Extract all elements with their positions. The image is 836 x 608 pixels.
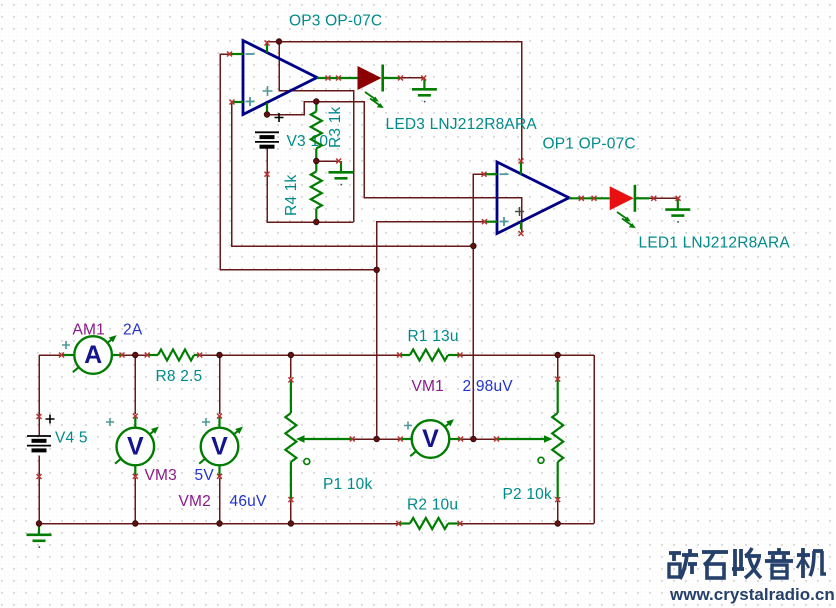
resistor R8 (158, 350, 194, 361)
ground bottom left (38, 524, 40, 535)
node VM2 bottom (217, 521, 223, 527)
x R8 right (197, 353, 202, 358)
OP1 output pin wire to LED1 (569, 197, 610, 199)
x battery V3 minus (265, 172, 270, 177)
voltmeter VM1 (400, 438, 412, 440)
OP3 minus glyph (246, 53, 255, 55)
wire feedback loop from node A down and right to R network right rail (279, 42, 354, 223)
voltmeter VM2 (218, 416, 220, 428)
x VM2 bottom (217, 474, 222, 479)
node VM2 top (217, 352, 223, 358)
x P2 bottom (555, 497, 560, 502)
ammeter AM1 (62, 354, 75, 356)
op-amp U OP3 (243, 41, 317, 115)
wire R3 top node right then down to OP1 V- supply pin (316, 102, 521, 233)
wire battery V3 minus to R network bottom (267, 147, 354, 222)
P1 terminal circle (304, 459, 310, 465)
svg-text:R4 1k: R4 1k (283, 174, 300, 216)
wire battery V4 branch (38, 355, 40, 524)
OP3 inverting input pin (230, 53, 244, 55)
x AM1 right (120, 353, 125, 358)
wire R3 bottom to ground (316, 160, 338, 162)
x OP1 V+ pin (519, 159, 524, 164)
x VM1 minus (458, 437, 463, 442)
OP1 minus glyph (500, 173, 509, 175)
node VM3 bottom (133, 521, 139, 527)
OP1 V- supply pin (520, 222, 522, 230)
svg-text:P2 10k: P2 10k (503, 486, 553, 503)
LED LED1 (610, 186, 634, 210)
svg-text:R8 2.5: R8 2.5 (156, 368, 203, 385)
node R3-R4 (314, 158, 320, 164)
x AM1 left (59, 353, 64, 358)
battery V3 plus marker (275, 113, 284, 122)
voltmeter VM3 (134, 416, 136, 428)
x R2 left (396, 521, 401, 526)
svg-text:P1 10k: P1 10k (323, 476, 373, 493)
LED1 emission arrows (617, 212, 629, 220)
ground near R3 (340, 161, 342, 172)
wire OP3 V- pin to R3 top node (267, 102, 316, 115)
P2 wiper arrow (497, 438, 548, 440)
node A top rail (276, 39, 282, 45)
node OP3 V- / V3 plus (264, 112, 270, 118)
x VM3 top (133, 414, 138, 419)
OP1 inverting input pin (484, 173, 497, 175)
node P2 bottom (555, 521, 561, 527)
svg-text:R3 1k: R3 1k (327, 106, 344, 148)
LED LED3 (358, 66, 382, 90)
OP3 output pin wire to LED3 (317, 77, 358, 79)
svg-text:V: V (211, 433, 228, 461)
wire OP3 inverting input left and down to node B (220, 54, 377, 270)
OP1 non-inverting input pin (485, 221, 498, 223)
node P2 top (555, 352, 561, 358)
P2 terminal circle (538, 457, 544, 463)
x R3 ground (336, 159, 341, 164)
x R1 right (458, 353, 463, 358)
svg-text:A: A (84, 341, 102, 369)
svg-text:OP1 OP-07C: OP1 OP-07C (543, 136, 636, 153)
VM3 plus marker (106, 418, 114, 426)
wire OP1 inverting input left and down to VM1 right node (473, 174, 484, 439)
x LED1 cathode (651, 196, 656, 201)
LED1 cathode wire (635, 197, 649, 199)
x OP1 V- pin (519, 231, 524, 236)
svg-text:www.crystalradio.cn: www.crystalradio.cn (669, 585, 835, 604)
LED3 cathode wire (383, 77, 399, 79)
x LED1 anode (592, 196, 597, 201)
x OP1 inverting pin (482, 172, 487, 177)
x P1 bottom (288, 497, 293, 502)
node C to OP1- (471, 243, 477, 249)
node VM1 minus (471, 436, 477, 442)
wire OP1 non-inverting input left and down to VM1 left node (377, 222, 485, 439)
wire top supply rail from OP3 V+ pin to OP1 V+ pin (267, 42, 522, 161)
x R8 left (145, 353, 150, 358)
OP1 supply plus glyph (515, 207, 524, 216)
node P1 bottom (288, 521, 294, 527)
resistor R1 (410, 350, 448, 361)
wire VM1 minus to P2 wiper (461, 438, 497, 440)
node R3 top (314, 99, 320, 105)
x ground LED1 (676, 196, 681, 201)
x VM2 top (217, 414, 222, 419)
VM1 plus marker (404, 422, 412, 430)
battery V3 (255, 131, 279, 133)
x OP3 non-inverting pin (230, 100, 235, 105)
ground after LED3 (423, 78, 425, 89)
x P2 top (555, 377, 560, 382)
x ground LED3 (421, 76, 426, 81)
x P1 top (288, 377, 293, 382)
potentiometer P1 (290, 380, 292, 414)
svg-text:LED1 LNJ212R8ARA: LED1 LNJ212R8ARA (639, 235, 791, 252)
battery V4 (27, 435, 51, 437)
svg-text:V: V (127, 433, 144, 461)
x OP1 non-inverting pin (482, 219, 487, 224)
ground after LED1 (677, 198, 679, 209)
AM1 plus marker (62, 341, 70, 349)
LED3 emission arrows (365, 92, 377, 100)
svg-text:V4 5: V4 5 (55, 430, 88, 447)
wire LED3 cathode to ground (399, 77, 424, 79)
battery V4 plus marker (46, 415, 55, 424)
wire LED1 cathode to ground (649, 197, 678, 199)
svg-text:VM1: VM1 (412, 378, 444, 395)
svg-text:5V: 5V (195, 467, 215, 484)
x P2 wiper (494, 437, 499, 442)
OP3 non-inverting input pin (232, 101, 243, 103)
wire VM2 branch (219, 355, 221, 524)
OP1 plus glyph (500, 217, 509, 226)
OP3 supply plus glyph (263, 86, 273, 96)
x P1 wiper (350, 437, 355, 442)
svg-text:V: V (422, 425, 439, 453)
node VM1 plus (374, 436, 380, 442)
x VM1 plus (398, 437, 403, 442)
node P1 top (288, 352, 294, 358)
wire VM3 branch (134, 355, 136, 524)
x V4 plus (37, 414, 42, 419)
x R1 left (397, 353, 402, 358)
x LED3 anode (336, 76, 341, 81)
op-amp U OP1 (497, 162, 569, 234)
x VM3 bottom (133, 474, 138, 479)
svg-text:OP3 OP-07C: OP3 OP-07C (289, 13, 382, 30)
x V4 minus (37, 474, 42, 479)
svg-text:V3: V3 (287, 133, 306, 150)
x OP1 output (579, 196, 584, 201)
OP3 V+ supply pin (266, 42, 268, 53)
potentiometer P2 (557, 377, 559, 413)
wire P1 branch (290, 355, 292, 524)
svg-text:LED3 LNJ212R8ARA: LED3 LNJ212R8ARA (386, 116, 538, 133)
svg-text:AM1: AM1 (73, 322, 105, 339)
resistor R3 (311, 112, 322, 149)
resistor R4 (311, 172, 322, 209)
P1 wiper arrow (301, 438, 352, 440)
svg-text:VM3: VM3 (145, 467, 177, 484)
x OP3 V+ pin (265, 41, 270, 46)
svg-text:VM2: VM2 (179, 493, 211, 510)
watermark text (669, 551, 681, 555)
x OP3 output (326, 76, 331, 81)
wire OP3 non-inverting input down to node C (232, 102, 474, 246)
OP1 V+ supply pin (520, 162, 522, 175)
resistor R2 (410, 518, 448, 529)
wire P1 wiper to VM1 plus (352, 438, 400, 440)
node R4 bottom (314, 219, 320, 225)
x LED3 cathode (398, 76, 403, 81)
node VM3 top (133, 352, 139, 358)
wire P2 branch (557, 355, 559, 524)
node B feedback to OP1+ (374, 267, 380, 273)
node V4 minus rail (36, 521, 42, 527)
svg-text:R2 10u: R2 10u (407, 497, 458, 514)
svg-text:R1 13u: R1 13u (408, 328, 459, 345)
OP3 V- supply pin (266, 103, 268, 113)
VM2 plus marker (202, 418, 210, 426)
OP3 plus glyph (246, 97, 255, 106)
svg-text:2.98uV: 2.98uV (463, 378, 514, 395)
x R2 right (458, 521, 463, 526)
svg-text:2A: 2A (123, 322, 143, 339)
svg-text:46uV: 46uV (230, 493, 267, 510)
wire right edge loop R1-R2 (593, 355, 595, 524)
x OP3 inverting pin (227, 52, 232, 57)
wire bottom rail (0V) (39, 523, 594, 525)
wire bottom loop top rail (39, 354, 594, 356)
